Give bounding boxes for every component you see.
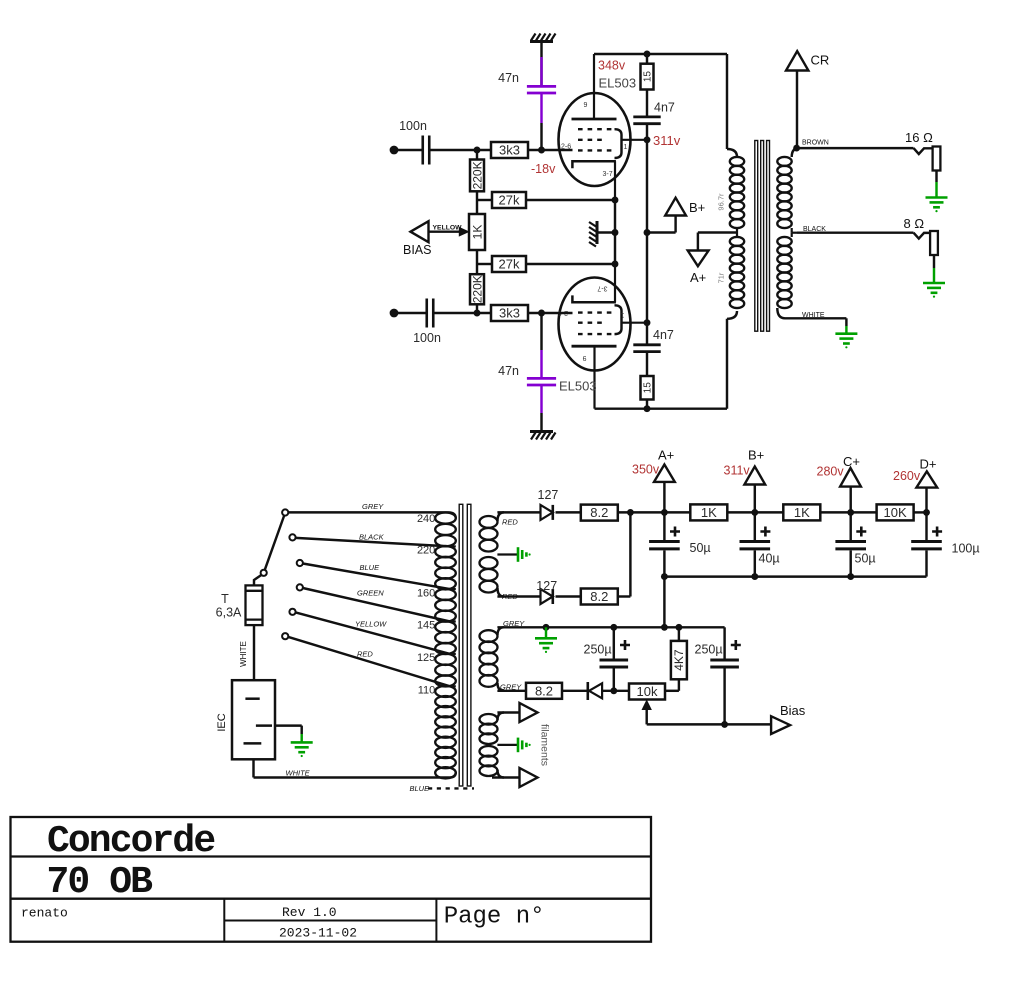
svg-text:125: 125 <box>417 652 435 664</box>
port CR <box>786 51 829 148</box>
titleblock frame <box>11 817 652 942</box>
ground earth IEC <box>291 742 313 757</box>
wire switch to fuse <box>254 575 262 586</box>
wire screen to C6 <box>646 323 648 345</box>
wire C1 to R1 <box>430 149 492 151</box>
wire RED 110 <box>288 637 450 686</box>
wire BLACK to R11 <box>797 226 930 238</box>
wire R8 to grid V2 <box>528 312 573 314</box>
svg-text:100n: 100n <box>413 331 441 345</box>
resistor R8 3k3 lower <box>491 305 528 321</box>
svg-text:T: T <box>221 592 229 606</box>
resistor R12 8.2 upper <box>581 505 618 521</box>
svg-text:27k: 27k <box>499 257 520 272</box>
svg-text:100µ: 100µ <box>952 542 980 556</box>
svg-text:filaments: filaments <box>539 724 551 766</box>
node B+ tap <box>644 229 651 236</box>
power B+ supply <box>647 198 705 233</box>
wire fuse to IEC <box>239 625 254 680</box>
svg-text:311v: 311v <box>653 133 681 148</box>
svg-text:50µ: 50µ <box>690 541 711 555</box>
labels T2 voltage taps <box>417 513 435 697</box>
wire RED upper to D1 <box>497 512 540 526</box>
wire R11 to ground <box>933 255 935 282</box>
wire R7 to C5 <box>646 90 648 118</box>
node D+ rail <box>923 509 930 516</box>
svg-text:C+: C+ <box>843 454 860 469</box>
svg-text:280v: 280v <box>817 464 845 478</box>
wire C4 to ground <box>540 413 542 431</box>
svg-text:127: 127 <box>536 579 557 593</box>
wire node to R7 <box>646 54 648 64</box>
ground earth 16 ohm <box>926 198 948 213</box>
node junction 47n bottom <box>538 310 545 317</box>
svg-text:4n7: 4n7 <box>654 101 675 115</box>
svg-text:RED: RED <box>357 650 373 659</box>
capacitor C6 4n7 lower <box>633 328 674 352</box>
capacitor C11 250u <box>584 627 631 691</box>
svg-text:RED: RED <box>502 592 518 601</box>
svg-text:4K7: 4K7 <box>672 649 686 671</box>
transformer T2 primary winding <box>435 512 456 778</box>
wire bias output <box>647 723 771 725</box>
title date 2023-11-02 <box>279 925 357 940</box>
svg-text:220K: 220K <box>470 275 484 303</box>
svg-text:3-7: 3-7 <box>603 171 613 178</box>
power B+ port <box>724 448 766 513</box>
wire R5 to cathode V1 <box>526 199 615 201</box>
vacuum tube V2 EL503 lower <box>558 264 647 409</box>
svg-text:YELLOW: YELLOW <box>355 620 387 629</box>
svg-text:1: 1 <box>624 144 628 151</box>
port filament upper <box>497 703 537 722</box>
resistor R3 1K bias pot <box>469 214 485 250</box>
resistor R2 220K upper <box>470 160 484 192</box>
wire C5 to screen node <box>646 124 648 140</box>
transformer T2 LV secondary <box>480 627 505 691</box>
wire C3 to node <box>540 123 542 150</box>
capacitor C4 47n lower <box>498 350 556 413</box>
svg-text:1: 1 <box>621 311 625 318</box>
svg-text:BLACK: BLACK <box>359 533 385 542</box>
power A+ port <box>632 448 675 513</box>
wire rectifier loop <box>618 512 631 596</box>
wire screen rail <box>646 140 648 233</box>
svg-text:B+: B+ <box>689 200 705 215</box>
svg-text:10k: 10k <box>637 684 658 699</box>
node snubber top <box>644 51 651 58</box>
capacitor C12 250u <box>695 627 741 724</box>
svg-text:50µ: 50µ <box>855 552 876 566</box>
svg-text:27k: 27k <box>499 193 520 208</box>
svg-text:Page n°: Page n° <box>444 903 545 930</box>
wire WHITE tap <box>785 312 846 333</box>
svg-text:1K: 1K <box>794 505 810 520</box>
svg-text:WHITE: WHITE <box>239 641 248 667</box>
svg-text:D+: D+ <box>920 456 937 471</box>
node junction 47n top <box>538 147 545 154</box>
wire BLUE 160 <box>303 563 450 589</box>
svg-text:250µ: 250µ <box>695 643 723 657</box>
capacitor C2 100n <box>413 299 441 346</box>
wire R9 to plate rail <box>646 400 648 409</box>
fuse F1 6.3A <box>216 585 263 625</box>
svg-text:YELLOW: YELLOW <box>433 225 463 232</box>
wire BLACK 220 <box>296 533 450 547</box>
svg-text:2-6: 2-6 <box>561 144 571 151</box>
switch SW1 mains selector <box>261 509 303 639</box>
svg-text:40µ: 40µ <box>759 552 780 566</box>
wire BLUE dashed <box>410 784 475 793</box>
node cathode junction top <box>612 197 619 204</box>
wire plate V1 to transformer <box>594 54 727 149</box>
svg-text:BLACK: BLACK <box>803 226 826 233</box>
diode D3 bias <box>588 682 602 700</box>
svg-text:3k3: 3k3 <box>499 306 520 321</box>
node input terminal top <box>390 146 399 155</box>
svg-text:47n: 47n <box>498 364 519 378</box>
ground chassis cathodes <box>589 221 615 247</box>
transformer T1 primary winding <box>717 149 745 319</box>
node bias cap junction <box>721 721 728 728</box>
vacuum tube V1 EL503 upper <box>559 54 648 200</box>
node cathode junction bottom <box>612 261 619 268</box>
label -18v <box>531 162 556 176</box>
node screen V2 <box>644 319 651 326</box>
transformer T2 core <box>459 504 471 786</box>
resistor R11 8 ohm <box>904 216 938 255</box>
node A+ rail <box>661 509 668 516</box>
svg-text:A+: A+ <box>658 448 674 463</box>
resistor R5 27K upper <box>492 192 526 208</box>
svg-text:B+: B+ <box>748 448 764 463</box>
svg-text:GREY: GREY <box>503 619 525 628</box>
wire R14 to B+ <box>727 511 783 513</box>
wire WHITE mains return <box>254 759 451 777</box>
svg-text:WHITE: WHITE <box>286 768 311 777</box>
node input terminal bottom <box>390 309 399 318</box>
svg-text:8.2: 8.2 <box>535 683 553 698</box>
wire screen rail lower <box>646 233 648 323</box>
power C+ port <box>817 454 861 512</box>
svg-text:BIAS: BIAS <box>403 243 432 257</box>
transformer T1 secondary winding <box>777 148 799 318</box>
wire D2 to R13 <box>556 595 581 597</box>
svg-text:9: 9 <box>583 354 587 361</box>
wire YELLOW 125 <box>296 612 450 654</box>
svg-text:GREY: GREY <box>362 502 384 511</box>
ground chassis top <box>530 34 556 42</box>
resistor R16 10K <box>877 504 914 520</box>
wire GREY lower to R18 <box>497 682 526 691</box>
title Page n <box>444 903 545 930</box>
ground earth bias <box>535 627 557 653</box>
svg-text:15: 15 <box>643 71 654 83</box>
potentiometer R19 10k <box>629 684 665 725</box>
wire R2 to R3 <box>476 191 478 215</box>
title Concorde <box>47 820 214 863</box>
power A+ center tap <box>688 233 738 286</box>
resistor R9 15 lower <box>641 376 654 400</box>
svg-text:3k3: 3k3 <box>499 143 520 158</box>
capacitor C3 47n top <box>498 57 556 93</box>
ground earth 8 ohm <box>923 283 945 298</box>
svg-text:A+: A+ <box>690 270 706 285</box>
svg-text:240: 240 <box>417 513 435 525</box>
node bias ground <box>543 624 550 631</box>
power D+ port <box>893 456 937 512</box>
node bias feed <box>661 624 668 631</box>
svg-text:-18v: -18v <box>531 162 556 176</box>
wire GREEN 145 <box>303 588 450 622</box>
node bus 40u <box>751 573 758 580</box>
wire A+ to R14 <box>664 511 690 513</box>
svg-text:16 Ω: 16 Ω <box>905 130 933 145</box>
connector IEC mains inlet <box>216 680 275 759</box>
resistor R17 4k7 <box>671 627 687 691</box>
svg-text:127: 127 <box>538 488 559 502</box>
svg-text:3-7: 3-7 <box>597 285 607 292</box>
wire R12 to A+ node <box>618 511 665 513</box>
ground chassis bottom <box>530 432 556 440</box>
node 4k7 top <box>675 624 682 631</box>
svg-text:GREEN: GREEN <box>357 588 384 597</box>
node bus 50u second <box>847 573 854 580</box>
wire C6 to R9 <box>646 352 648 377</box>
port Bias output <box>771 703 806 734</box>
wire R6 to cathode V2 <box>526 263 615 265</box>
resistor R15 1K <box>783 504 820 520</box>
svg-text:Bias: Bias <box>780 703 806 718</box>
title Rev 1.0 <box>282 905 337 920</box>
wire node to R6 <box>477 263 492 265</box>
svg-text:9: 9 <box>584 102 588 109</box>
wire R16 to D+ <box>913 511 926 513</box>
svg-text:8.2: 8.2 <box>590 505 608 520</box>
node B+ rail <box>751 509 758 516</box>
node cathode ground <box>612 229 619 236</box>
wire C2 to R8 <box>434 312 492 314</box>
wire input top to C1 <box>394 149 423 151</box>
resistor R13 8.2 lower <box>581 589 618 605</box>
port BIAS input <box>403 221 432 257</box>
svg-text:2023-11-02: 2023-11-02 <box>279 925 357 940</box>
resistor R10 16 ohm <box>905 130 940 171</box>
wire ground to C3 <box>540 42 542 58</box>
label EL503 lower <box>559 379 597 394</box>
transformer T2 filament secondary <box>480 713 518 778</box>
svg-text:EL503: EL503 <box>559 379 597 394</box>
node bias divider <box>610 687 617 694</box>
svg-text:311v: 311v <box>724 464 751 478</box>
svg-text:70 OB: 70 OB <box>47 861 153 904</box>
capacitor C5 4n7 upper <box>633 101 675 124</box>
wire bias bus <box>497 619 724 628</box>
wire R15 to C+ <box>821 511 877 513</box>
transformer T2 HV secondary <box>480 512 518 596</box>
node rectifier junction <box>627 509 634 516</box>
svg-text:348v: 348v <box>598 59 626 73</box>
svg-text:6,3A: 6,3A <box>216 606 242 620</box>
diode D2 127 lower <box>536 579 557 604</box>
svg-text:10K: 10K <box>884 505 907 520</box>
svg-text:Concorde: Concorde <box>47 820 214 863</box>
svg-text:RED: RED <box>502 518 518 527</box>
ground earth HV center tap <box>518 547 531 562</box>
svg-text:BLUE: BLUE <box>360 563 381 572</box>
svg-text:220K: 220K <box>470 161 484 189</box>
svg-text:1K: 1K <box>470 225 484 240</box>
wire filter ground bus <box>664 575 926 577</box>
capacitor C10 100u <box>911 512 979 576</box>
node junction 220K top <box>474 147 481 154</box>
svg-text:47n: 47n <box>498 71 519 85</box>
wire node to R2 <box>476 150 478 160</box>
label 311v upper <box>653 133 681 148</box>
resistor R4 220K lower <box>470 274 484 304</box>
wire bias arrow YELLOW <box>429 225 469 236</box>
port filament lower <box>492 768 538 787</box>
wire R18 to D3 <box>562 690 588 692</box>
node BROWN tap <box>793 140 829 152</box>
svg-text:GREY: GREY <box>500 682 522 691</box>
wire R4 to node bottom <box>476 304 478 313</box>
resistor R18 8.2 bias <box>526 683 562 699</box>
node C+ rail <box>847 509 854 516</box>
resistor R7 15 upper <box>641 64 654 90</box>
wire GREY 240 <box>288 502 448 512</box>
node snubber bottom <box>644 405 651 412</box>
svg-text:IEC: IEC <box>216 713 228 731</box>
wire input bottom to C2 <box>394 312 427 314</box>
title 70 OB <box>47 861 153 904</box>
label 348v <box>598 59 626 73</box>
svg-text:110: 110 <box>418 685 436 697</box>
wire plate V2 to transformer <box>595 319 728 409</box>
wire 10k to 4k7 <box>665 690 679 692</box>
svg-text:250µ: 250µ <box>584 643 612 657</box>
svg-text:350v: 350v <box>632 463 660 477</box>
wire bus to bias row <box>663 577 665 628</box>
wire IEC earth <box>275 726 302 742</box>
transformer T1 core <box>755 141 770 332</box>
wire R1 to grid V1 <box>528 149 573 151</box>
wire BROWN to R10 <box>797 148 933 154</box>
node junction 220K bottom <box>474 310 481 317</box>
wire R10 to ground <box>935 171 937 197</box>
svg-text:renato: renato <box>21 906 68 921</box>
ground earth filament center tap <box>518 738 531 753</box>
node bus 50u <box>661 573 668 580</box>
wire D3 to node <box>602 690 629 692</box>
capacitor C8 40u <box>740 512 780 576</box>
label filaments <box>539 724 551 766</box>
svg-text:8 Ω: 8 Ω <box>904 216 925 231</box>
svg-text:Rev 1.0: Rev 1.0 <box>282 905 337 920</box>
resistor R1 3k3 <box>491 142 528 158</box>
wire node to R5 <box>477 199 492 201</box>
svg-text:CR: CR <box>811 53 830 68</box>
diode D1 127 upper <box>538 488 559 520</box>
svg-text:100n: 100n <box>399 119 427 133</box>
svg-text:4n7: 4n7 <box>653 328 674 342</box>
wire R3 to R4 <box>476 249 478 274</box>
svg-text:8.2: 8.2 <box>590 589 608 604</box>
svg-text:145: 145 <box>417 620 435 632</box>
svg-text:EL503: EL503 <box>599 76 637 91</box>
svg-text:160: 160 <box>417 587 435 599</box>
title author renato <box>21 906 68 921</box>
wire node to C4 <box>540 313 542 350</box>
resistor R14 1K <box>690 504 727 520</box>
svg-text:1K: 1K <box>701 505 717 520</box>
wire D1 to R12 <box>556 511 581 513</box>
svg-text:71r: 71r <box>717 272 726 283</box>
svg-text:96.7r: 96.7r <box>717 193 726 211</box>
wire cathode bus <box>614 200 616 264</box>
resistor R6 27K lower <box>492 256 526 272</box>
capacitor C7 50u <box>649 512 711 576</box>
label EL503 upper <box>599 76 637 91</box>
svg-text:BLUE: BLUE <box>410 784 431 793</box>
ground earth WHITE <box>835 334 857 349</box>
node 250u first top <box>610 624 617 631</box>
wire net purple top <box>540 57 542 123</box>
svg-text:260v: 260v <box>893 469 921 483</box>
capacitor C9 50u <box>835 512 875 576</box>
capacitor C1 100n <box>399 119 429 165</box>
svg-text:220: 220 <box>417 545 435 557</box>
svg-text:15: 15 <box>643 382 654 394</box>
svg-text:WHITE: WHITE <box>802 312 825 319</box>
node screen V1 <box>644 136 651 143</box>
svg-text:BROWN: BROWN <box>802 140 829 147</box>
wire RED lower to D2 <box>497 592 540 601</box>
